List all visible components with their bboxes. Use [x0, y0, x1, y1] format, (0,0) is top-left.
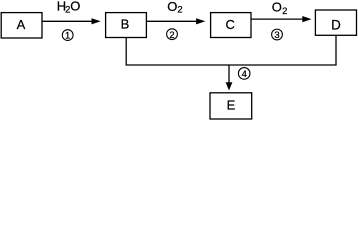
label O2 second [272, 0, 288, 17]
svg-text:O: O [272, 0, 282, 14]
circled 2 [167, 29, 178, 41]
wire down from B [125, 38, 127, 66]
svg-text:3: 3 [274, 30, 279, 41]
circled 3 [272, 29, 283, 41]
box A [1, 13, 42, 38]
svg-text:1: 1 [65, 31, 70, 42]
circled 4 [238, 68, 250, 80]
svg-text:B: B [121, 17, 130, 32]
svg-text:2: 2 [177, 5, 182, 16]
arrow B to C [146, 18, 205, 24]
box D [315, 10, 356, 35]
box C [211, 13, 251, 38]
svg-text:4: 4 [242, 68, 247, 79]
arrow A to B [42, 18, 101, 24]
svg-text:O: O [70, 0, 80, 14]
wire bus horizontal [126, 64, 337, 66]
label O2 first [167, 0, 182, 16]
label H2O [57, 0, 81, 16]
box E [210, 93, 252, 119]
svg-text:2: 2 [282, 6, 287, 17]
svg-text:O: O [167, 0, 177, 14]
svg-text:A: A [17, 17, 26, 32]
arrow C to D [251, 16, 312, 22]
svg-text:2: 2 [169, 30, 174, 41]
arrow down to E [226, 65, 233, 91]
wire down from D [335, 35, 337, 65]
box B [106, 13, 147, 38]
circled 1 [62, 30, 73, 42]
svg-text:C: C [226, 17, 235, 32]
svg-text:E: E [227, 98, 236, 113]
svg-text:D: D [331, 18, 341, 33]
